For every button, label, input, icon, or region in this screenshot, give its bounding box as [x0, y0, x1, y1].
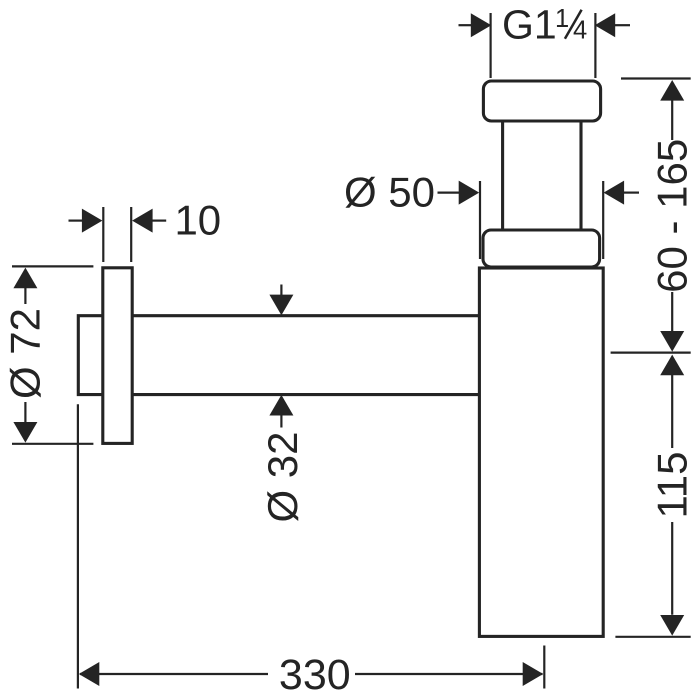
dim 10: left arrow: [69, 209, 103, 233]
collar (lower sleeve ring): [483, 230, 600, 267]
dim 115: top arrow (up): [660, 355, 684, 448]
dim 330: right arrow (points right): [523, 662, 544, 686]
dim 10: left extension line: [102, 207, 104, 262]
svg-text:Ø 32: Ø 32: [259, 431, 306, 522]
dim O72: top arrow (up): [13, 268, 37, 304]
dim O72: top extension line: [12, 265, 93, 267]
dim O32: bottom arrow (up, onto pipe): [269, 395, 293, 428]
dim 115: bottom arrow (down): [660, 522, 684, 636]
dim O50: right arrow: [604, 181, 639, 205]
dim O72: bottom arrow (down): [13, 402, 37, 443]
svg-text:Ø 50: Ø 50: [344, 168, 435, 215]
dim 60-165: middle tick line: [611, 352, 691, 354]
svg-text:60 - 165: 60 - 165: [648, 139, 695, 293]
dim 60-165: top arrow (up): [660, 80, 684, 140]
svg-text:Ø 72: Ø 72: [2, 308, 49, 399]
trap body: [479, 268, 603, 636]
dim 10: right extension line: [130, 207, 132, 262]
svg-text:1: 1: [555, 5, 569, 33]
dim 60-165: bottom arrow (down): [660, 292, 684, 352]
dim O32: top arrow (down, onto pipe): [269, 285, 293, 316]
svg-text:10: 10: [174, 196, 221, 243]
dim 330: dimension line segments: [80, 673, 543, 675]
dim O50: right extension line: [602, 181, 604, 259]
dim 330: right extension line: [543, 646, 545, 689]
svg-text:4: 4: [573, 17, 587, 45]
dim 330: left extension line: [77, 404, 79, 688]
pipe (horizontal outlet tube): [78, 316, 479, 395]
dim O50: left extension line: [479, 181, 481, 259]
dim 330: left arrow (points left): [79, 662, 100, 686]
dim O72: bottom extension line: [12, 443, 93, 445]
dim G1 1/4: left arrow: [459, 13, 492, 37]
dim G1 1/4: right extension line: [594, 13, 596, 78]
wall flange: [103, 268, 132, 444]
dim 115: bottom tick line: [615, 636, 690, 638]
svg-text:115: 115: [648, 452, 695, 519]
union nut (top): [483, 81, 600, 121]
dim 10: right arrow: [132, 209, 166, 233]
dim G1 1/4: left extension line: [490, 13, 492, 78]
dim O50: left arrow: [438, 181, 480, 205]
dim 60-165: top tick line: [621, 77, 691, 79]
riser tube: [503, 121, 581, 233]
svg-text:330: 330: [279, 651, 351, 699]
dim label G1 1/4: [502, 2, 587, 48]
svg-text:G1: G1: [502, 2, 557, 48]
dim G1 1/4: right arrow: [595, 13, 630, 37]
